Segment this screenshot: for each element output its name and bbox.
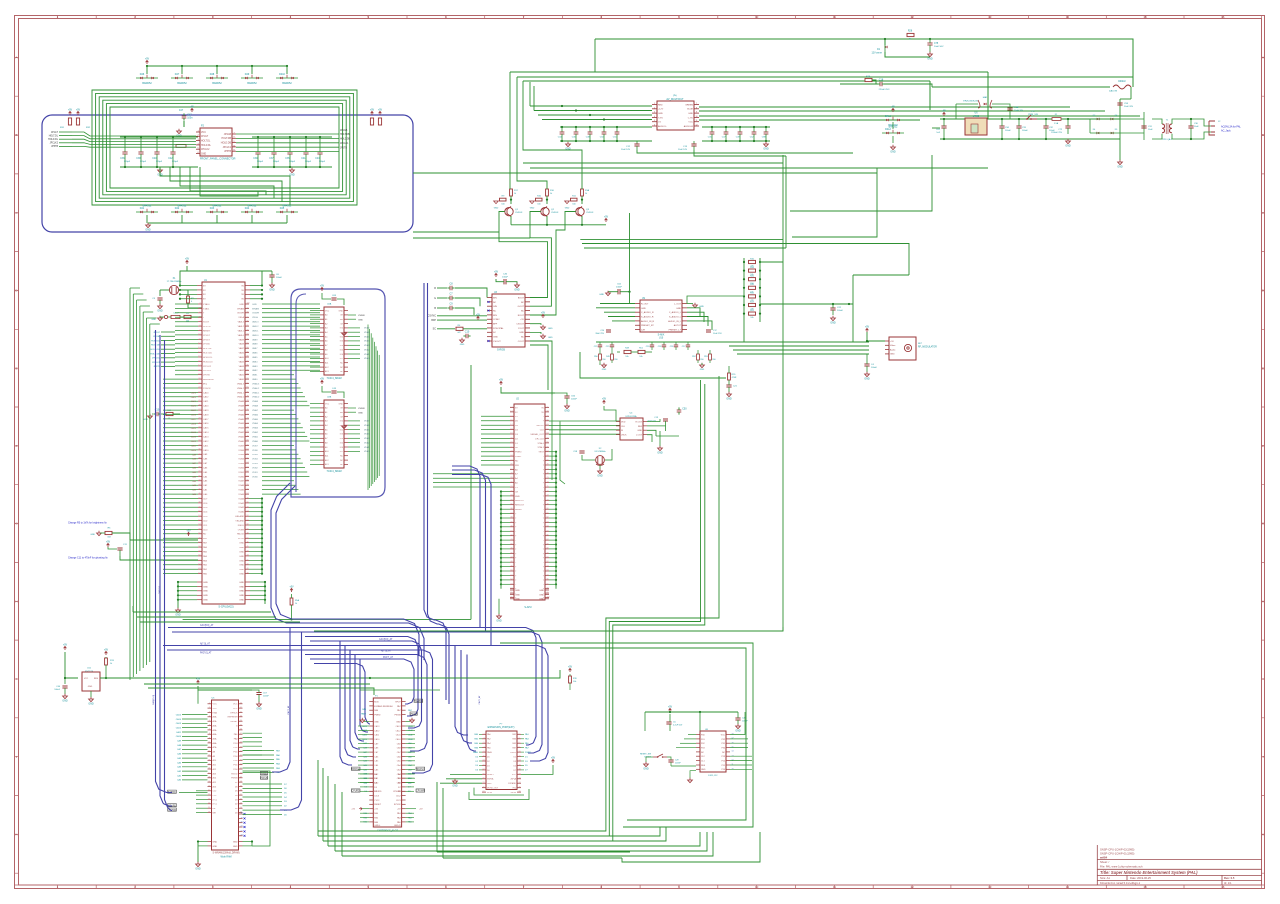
wire reset net: [646, 756, 653, 758]
svg-text:75: 75: [547, 486, 549, 488]
svg-text:VDB2: VDB2: [252, 467, 258, 469]
svg-text:5: 5: [654, 120, 655, 122]
resistor R19 pull: [569, 668, 572, 672]
svg-text:C_AUDIO_R: C_AUDIO_R: [641, 311, 654, 314]
svg-text:CLK: CLK: [540, 430, 545, 432]
diode MA165: [984, 103, 987, 105]
svg-text:81: 81: [247, 387, 249, 389]
svg-text:GND: GND: [688, 113, 693, 115]
wire X2: [582, 455, 595, 460]
svg-text:H: H: [15, 599, 17, 603]
svg-text:24.576MHz: 24.576MHz: [594, 451, 605, 453]
svg-text:12: 12: [695, 125, 697, 127]
wire audio long horizontal: [687, 296, 744, 304]
+5V rail top diodes: [147, 65, 287, 67]
svg-text:GND: GND: [676, 308, 681, 310]
svg-text:BAP202: BAP202: [213, 204, 222, 207]
svg-text:VCC: VCC: [233, 704, 238, 706]
svg-text:+5V: +5V: [190, 105, 195, 108]
svg-text:D47: D47: [175, 73, 180, 76]
svg-text:VDB3: VDB3: [252, 463, 258, 465]
svg-text:L.OUT: L.OUT: [636, 434, 643, 436]
svg-text:VDA0: VDA0: [364, 357, 370, 360]
capacitor C30: [1188, 125, 1193, 127]
svg-text:A[7:0]_AT: A[7:0]_AT: [200, 642, 211, 645]
svg-text:BAW052: BAW052: [177, 82, 187, 85]
svg-text:37: 37: [510, 512, 512, 514]
svg-text:99: 99: [247, 307, 249, 309]
resistor pair right: [371, 111, 374, 115]
svg-text:10: 10: [198, 334, 200, 336]
svg-text:MUTE?: MUTE?: [537, 425, 545, 427]
svg-text:34: 34: [240, 720, 242, 722]
svg-text:D49: D49: [245, 73, 250, 76]
svg-text:26: 26: [208, 811, 210, 813]
svg-text:53: 53: [247, 510, 249, 512]
NC marks U5: [244, 813, 246, 815]
svg-text:19: 19: [241, 817, 243, 819]
svg-text:VMA2: VMA2: [252, 431, 259, 434]
svg-text:GND: GND: [213, 841, 218, 843]
svg-text:A1A: A1A: [213, 720, 218, 723]
diode bridge: [1097, 118, 1100, 120]
svg-text:GND: GND: [597, 474, 603, 477]
svg-text:S_AUDIO_L: S_AUDIO_L: [669, 315, 682, 318]
svg-text:CA12: CA12: [396, 729, 402, 732]
svg-text:B: B: [1262, 133, 1264, 137]
svg-text:CD6: CD6: [203, 503, 208, 505]
svg-text:37: 37: [240, 733, 242, 735]
svg-text:CA17: CA17: [191, 418, 197, 421]
svg-text:42: 42: [510, 534, 512, 536]
inductor L5: [176, 145, 186, 148]
diode pair D47 BAW052: [171, 77, 193, 79]
svg-text:IRQ: IRQ: [203, 384, 207, 386]
svg-text:52: 52: [247, 515, 249, 517]
svg-text:29: 29: [198, 418, 200, 420]
GND C6: [270, 285, 275, 288]
svg-text:16: 16: [208, 768, 210, 770]
svg-text:100nF: 100nF: [616, 287, 623, 289]
wire dac area runs left: [560, 422, 565, 485]
wire CIC right rows: [730, 712, 745, 735]
svg-text:GND: GND: [239, 565, 244, 567]
svg-text:CA20: CA20: [203, 405, 209, 408]
svg-text:5: 5: [209, 720, 210, 722]
svg-text:BLUE: BLUE: [687, 109, 693, 111]
svg-text:59: 59: [198, 550, 200, 552]
GND CL7: [158, 318, 163, 321]
svg-text:C945LF: C945LF: [586, 212, 594, 214]
wire run from U11 right: [370, 670, 560, 678]
svg-text:12: 12: [198, 343, 200, 345]
svg-text:40: 40: [510, 526, 512, 528]
svg-text:JP1GT: JP1GT: [201, 136, 209, 138]
svg-text:RESET: RESET: [231, 721, 239, 723]
svg-text:85: 85: [547, 530, 549, 532]
GND U11: [89, 699, 94, 702]
wire big loop around CIC: [500, 643, 753, 827]
svg-text:23: 23: [510, 450, 512, 452]
svg-text:GND: GND: [539, 594, 544, 596]
svg-text:GND: GND: [339, 310, 344, 312]
svg-text:+5V: +5V: [865, 325, 870, 328]
svg-text:14: 14: [198, 351, 200, 353]
svg-text:57: 57: [247, 493, 249, 495]
wire ladder links: [760, 261, 783, 263]
+5V S-RGB: [495, 273, 498, 277]
svg-text:SERIAL_OUT: SERIAL_OUT: [530, 433, 544, 436]
diode pair D48 BAW052: [206, 77, 228, 79]
GND CIC: [688, 780, 693, 783]
capacitor C29 reset: [668, 759, 673, 761]
GND C47: [177, 131, 182, 134]
svg-text:48: 48: [247, 533, 249, 535]
svg-text:GND: GND: [256, 707, 262, 710]
svg-text:R1A: R1A: [585, 189, 590, 192]
svg-text:HBLANK: HBLANK: [235, 515, 244, 518]
svg-text:1k: 1k: [295, 603, 297, 605]
bus vertical riser left 2: [160, 335, 172, 806]
resistor ladder audio right: [743, 258, 745, 322]
svg-text:CA19: CA19: [191, 409, 197, 412]
svg-text:A6A: A6A: [213, 742, 218, 745]
svg-text:BDWGC: BDWGC: [416, 769, 425, 771]
svg-text:39: 39: [198, 462, 200, 464]
svg-text:47: 47: [198, 497, 200, 499]
svg-text:VDA2: VDA2: [364, 348, 370, 351]
svg-text:+5V: +5V: [520, 319, 524, 321]
GND S-MIX right: [693, 305, 698, 308]
svg-text:10uF 20V: 10uF 20V: [1124, 106, 1134, 108]
svg-text:GND: GND: [864, 377, 870, 380]
svg-text:27: 27: [510, 468, 512, 470]
svg-text:CA18: CA18: [191, 414, 197, 417]
svg-text:64: 64: [198, 572, 200, 574]
svg-text:GND: GND: [599, 294, 604, 296]
svg-text:9: 9: [199, 329, 200, 331]
svg-text:Id: 1/1: Id: 1/1: [1224, 881, 1232, 885]
svg-text:10uF 16V: 10uF 16V: [678, 149, 688, 151]
svg-text:S-MIX: S-MIX: [658, 333, 665, 336]
svg-text:32: 32: [198, 431, 200, 433]
svg-text:GND: GND: [239, 595, 244, 597]
wire exp bottom loop: [469, 789, 529, 800]
junction column S-CPU lower right: [249, 498, 262, 500]
svg-text:VRLA: VRLA: [238, 316, 244, 319]
svg-text:BAP202: BAP202: [178, 204, 187, 207]
RF modulator U7: [889, 337, 916, 360]
svg-text:GND: GND: [203, 595, 208, 597]
svg-text:10: 10: [208, 742, 210, 744]
svg-text:8: 8: [199, 325, 200, 327]
svg-text:10uF 16V: 10uF 16V: [621, 149, 631, 151]
svg-text:BAP202: BAP202: [143, 204, 152, 207]
svg-text:XTAL1: XTAL1: [537, 446, 544, 449]
svg-text:VDA0: VDA0: [364, 450, 370, 453]
svg-text:CA10: CA10: [203, 449, 209, 452]
+5V right of S-RGB: [542, 314, 545, 318]
capacitor C44 u11: [62, 685, 67, 687]
S-CPU bottom GND block: [197, 581, 202, 583]
svg-text:S-WRAM(128Kx8_DRAM): S-WRAM(128Kx8_DRAM): [213, 852, 240, 855]
svg-text:64: 64: [547, 437, 549, 439]
svg-text:VMA6: VMA6: [238, 413, 245, 416]
svg-text:14: 14: [510, 411, 512, 413]
svg-text:35: 35: [198, 444, 200, 446]
wire slot +5v rail: [360, 689, 440, 691]
wire bridge box: [1090, 118, 1144, 120]
svg-text:31: 31: [198, 427, 200, 429]
svg-text:PWR_SW: PWR_SW: [1028, 114, 1039, 116]
svg-text:VAB3: VAB3: [239, 365, 245, 368]
svg-text:VMAL1: VMAL1: [237, 391, 245, 394]
svg-text:(TC): (TC): [213, 799, 217, 801]
svg-text:43: 43: [240, 759, 242, 761]
svg-text:7: 7: [209, 729, 210, 731]
U5 bottom rows unconnected: [239, 813, 243, 815]
svg-text:21: 21: [198, 382, 200, 384]
diode pair D42 BAP202: [171, 211, 193, 213]
svg-text:PALCK: PALCK: [237, 533, 245, 536]
svg-text:GND: GND: [658, 113, 663, 115]
svg-text:16: 16: [510, 420, 512, 422]
svg-text:22: 22: [208, 794, 210, 796]
svg-text:CA10: CA10: [191, 449, 197, 452]
svg-text:35: 35: [510, 503, 512, 505]
svg-text:53: 53: [510, 583, 512, 585]
capacitor row left of AV: [560, 126, 652, 128]
svg-text:VCC: VCC: [213, 704, 218, 706]
capacitor C11 fix: [107, 543, 110, 547]
svg-text:JP1GT: JP1GT: [203, 335, 210, 337]
capacitor C33: [1016, 125, 1021, 127]
svg-text:+5V: +5V: [106, 540, 111, 543]
svg-text:XTAL1: XTAL1: [203, 307, 210, 310]
svg-text:C36: C36: [120, 158, 125, 160]
svg-text:51: 51: [510, 574, 512, 576]
wire U2A left fan: [310, 310, 320, 312]
GND C44: [63, 696, 68, 699]
svg-text:CSYNC: CSYNC: [428, 315, 437, 318]
svg-text:REFRESH: REFRESH: [228, 717, 238, 719]
svg-text:GND: GND: [339, 403, 344, 405]
svg-text:10nF: 10nF: [1148, 129, 1153, 131]
svg-text:1: 1: [209, 703, 210, 705]
svg-text:E: E: [1262, 366, 1264, 370]
+5V dac: [603, 400, 606, 404]
capacitor C4 RF: [864, 363, 869, 365]
svg-text:GND: GND: [515, 594, 520, 596]
svg-text:GND: GND: [203, 600, 208, 602]
svg-text:83: 83: [247, 378, 249, 380]
svg-text:GOUT: GOUT: [518, 306, 525, 308]
+5V regulator out: [943, 112, 946, 116]
GND S-APU: [497, 616, 502, 619]
svg-text:61: 61: [547, 424, 549, 426]
svg-text:NC: NC: [521, 337, 525, 339]
+5V NTSC pin: [187, 532, 190, 536]
svg-text:VAB2: VAB2: [252, 369, 258, 372]
svg-text:12: 12: [910, 15, 914, 19]
capacitor C47: [182, 115, 187, 117]
svg-text:VMA4: VMA4: [252, 422, 259, 425]
svg-text:68: 68: [247, 444, 249, 446]
wire long run x783 return: [314, 627, 783, 631]
svg-text:20: 20: [198, 378, 200, 380]
svg-text:87: 87: [247, 360, 249, 362]
svg-text:A7A: A7A: [213, 746, 218, 749]
svg-text:GND: GND: [175, 613, 181, 616]
svg-text:10uF 25V: 10uF 25V: [713, 333, 722, 335]
svg-text:VAB6: VAB6: [252, 352, 258, 355]
svg-text:CAD[15:0]: CAD[15:0]: [152, 695, 155, 705]
svg-text:VDB0: VDB0: [238, 476, 244, 478]
svg-text:VA8L1: VA8L1: [238, 329, 245, 332]
svg-text:10k: 10k: [573, 681, 576, 683]
wire bundle left to P2: [72, 132, 196, 136]
svg-text:VDB3: VDB3: [238, 463, 244, 465]
svg-text:VDA2: VDA2: [364, 441, 370, 444]
svg-text:20: 20: [519, 773, 521, 775]
svg-text:33: 33: [240, 716, 242, 718]
svg-text:18: 18: [519, 769, 521, 771]
svg-text:19: 19: [510, 433, 512, 435]
fuse F1: [1052, 118, 1061, 121]
GND slot right: [410, 720, 415, 723]
svg-text:89: 89: [247, 351, 249, 353]
svg-text:PRESET_L?: PRESET_L?: [669, 330, 682, 332]
svg-text:97: 97: [247, 316, 249, 318]
GND fuse area: [928, 54, 933, 57]
capacitor C61: [941, 125, 946, 127]
capacitor C9: [449, 306, 451, 311]
svg-text:81: 81: [547, 512, 549, 514]
svg-text:PWGB: PWGB: [231, 778, 238, 780]
svg-text:K: K: [15, 833, 17, 837]
svg-text:45: 45: [240, 768, 242, 770]
svg-text:66: 66: [547, 446, 549, 448]
svg-text:CA12: CA12: [176, 726, 182, 729]
svg-text:VMA8: VMA8: [252, 405, 259, 408]
wire smix left feeds: [600, 303, 635, 305]
svg-text:220pF: 220pF: [140, 161, 147, 163]
svg-text:CA18: CA18: [203, 413, 209, 416]
svg-text:+5V: +5V: [370, 108, 375, 111]
svg-text:44: 44: [240, 763, 242, 765]
svg-text:RESOUT: RESOUT: [515, 500, 525, 502]
svg-text:CA20: CA20: [191, 391, 197, 394]
svg-text:12V zener: 12V zener: [872, 51, 883, 54]
wire csout run down: [530, 341, 552, 395]
svg-text:90: 90: [247, 347, 249, 349]
svg-text:32: 32: [240, 711, 242, 713]
svg-text:330pF: 330pF: [273, 161, 280, 163]
wire rgb left feeds: [437, 287, 447, 289]
svg-text:9: 9: [484, 751, 485, 753]
svg-text:94: 94: [247, 329, 249, 331]
junction: [181, 65, 183, 67]
svg-text:89: 89: [547, 548, 549, 550]
GND C3: [158, 306, 163, 309]
svg-text:Change C11 to 470nF for ghosti: Change C11 to 470nF for ghosting fix: [68, 556, 108, 559]
svg-text:JP1GT: JP1GT: [51, 132, 59, 134]
svg-text:54: 54: [510, 587, 512, 589]
GND S-CPU: [176, 610, 181, 613]
svg-text:42: 42: [240, 755, 242, 757]
svg-text:100: 100: [247, 303, 250, 305]
svg-text:69: 69: [547, 459, 549, 461]
svg-text:CXPAND: CXPAND: [508, 782, 517, 785]
svg-text:HOLD.DL: HOLD.DL: [203, 357, 213, 359]
svg-text:38: 38: [198, 457, 200, 459]
capacitor C32: [1043, 125, 1048, 127]
wire loop verticals to collectors: [509, 72, 511, 189]
svg-text:+5V: +5V: [551, 756, 556, 759]
svg-text:L_OUT: L_OUT: [674, 303, 682, 305]
wire emitter rail: [511, 224, 606, 226]
resistor R collector Q1: [510, 189, 513, 196]
svg-text:BFP: BFP: [493, 324, 498, 326]
svg-text:JP5TB: JP5TB: [224, 151, 231, 153]
svg-text:GND: GND: [726, 397, 732, 400]
svg-text:Video: Video: [890, 345, 896, 347]
diode pair D46 BAW052: [136, 77, 158, 79]
svg-text:CA17: CA17: [203, 418, 209, 421]
svg-text:42: 42: [198, 475, 200, 477]
svg-text:CA21: CA21: [191, 400, 197, 403]
wire C12 C13 run: [637, 150, 853, 153]
junction: [146, 65, 148, 67]
GND base divider Q2: [530, 201, 535, 204]
svg-text:+5V: +5V: [104, 648, 109, 651]
svg-text:23: 23: [483, 782, 485, 784]
svg-text:VMA0: VMA0: [238, 440, 245, 443]
svg-text:Change R5 to 1k7k for brightne: Change R5 to 1k7k for brightness fix: [68, 521, 107, 524]
svg-text:17: 17: [483, 769, 485, 771]
svg-text:VMA3: VMA3: [252, 427, 259, 430]
svg-text:L/R_CLK: L/R_CLK: [535, 438, 544, 440]
svg-text:C38: C38: [136, 158, 141, 160]
svg-text:D4L1: D4L1: [885, 115, 891, 118]
svg-text:88: 88: [547, 543, 549, 545]
bus vertical riser left 3: [165, 340, 173, 810]
capacitor audio rc: [675, 342, 677, 345]
svg-text:CA13: CA13: [374, 725, 380, 728]
svg-text:CA12: CA12: [203, 440, 209, 443]
svg-text:VMAL0: VMAL0: [237, 396, 245, 399]
svg-text:GND: GND: [396, 722, 401, 724]
svg-text:VDB1: VDB1: [238, 472, 244, 474]
svg-text:+5V: +5V: [186, 529, 191, 532]
GND diode pair: [891, 147, 896, 150]
GND slot left: [360, 720, 365, 723]
svg-text:47: 47: [240, 777, 242, 779]
svg-text:45: 45: [510, 548, 512, 550]
svg-text:PA6E: PA6E: [473, 751, 479, 754]
svg-text:21: 21: [483, 778, 485, 780]
svg-text:CV: CV: [658, 122, 662, 124]
svg-text:PWR2: PWR2: [510, 752, 517, 754]
svg-text:GND: GND: [452, 784, 458, 787]
svg-text:31: 31: [510, 486, 512, 488]
svg-text:VAB1: VAB1: [239, 374, 245, 377]
capacitor C17 10uF: [706, 329, 711, 331]
svg-text:92: 92: [547, 561, 549, 563]
svg-text:26P(A: 26P(A: [510, 778, 516, 781]
svg-text:95: 95: [247, 325, 249, 327]
svg-text:VMA3: VMA3: [238, 427, 245, 430]
